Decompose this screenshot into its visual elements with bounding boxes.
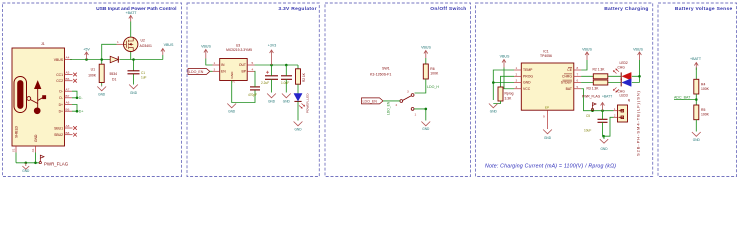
svg-text:2: 2 — [516, 72, 518, 76]
svg-text:B5: B5 — [66, 77, 70, 81]
junction gate/U1 tap — [100, 58, 103, 61]
svg-text:LDO_EN: LDO_EN — [363, 99, 378, 103]
svg-text:S1: S1 — [12, 148, 16, 152]
power symbol +3V3 — [270, 50, 274, 65]
svg-text:Battery Charging: Battery Charging — [604, 6, 648, 12]
J1 pin stub S1 — [15, 146, 17, 153]
ground below D2 — [294, 122, 303, 126]
svg-text:PWR_FLAG: PWR_FLAG — [582, 95, 601, 99]
no-connect X on CC1 — [73, 73, 77, 77]
capacitor C2 — [265, 76, 278, 80]
svg-text:GND: GND — [98, 92, 106, 96]
led LED2 red — [621, 72, 631, 80]
svg-text:3: 3 — [214, 67, 216, 71]
led LED3 blue — [621, 79, 631, 87]
svg-text:1uF: 1uF — [141, 76, 147, 80]
svg-text:POWER_LED: POWER_LED — [305, 93, 309, 113]
IC1 overbar STDBY — [563, 79, 573, 81]
wire LED rail riser — [639, 60, 641, 83]
svg-text:U2: U2 — [141, 39, 145, 43]
led D2 POWER_LED — [294, 94, 302, 102]
wire VBUS to VCC — [504, 68, 514, 89]
svg-text:J2: J2 — [627, 98, 631, 102]
wire CHRG row — [581, 75, 639, 77]
IC1 stub VCC — [514, 88, 521, 90]
svg-text:VBUS: VBUS — [421, 46, 431, 50]
svg-text:R3 1.3K: R3 1.3K — [587, 87, 600, 91]
wire VBUS to IN — [206, 59, 213, 66]
svg-text:100K: 100K — [430, 72, 439, 76]
IC1 stub CE — [574, 69, 581, 71]
wire PROG to Rprog — [501, 76, 515, 87]
wire OUT rail — [255, 64, 299, 66]
svg-text:MIC5219-3.3YM5: MIC5219-3.3YM5 — [226, 48, 252, 52]
svg-text:BP: BP — [241, 70, 246, 74]
ground left rail — [489, 104, 498, 108]
no-connect X on CC2 — [73, 79, 77, 83]
svg-text:A5: A5 — [66, 71, 70, 75]
svg-text:2: 2 — [396, 103, 398, 107]
wire R6 to switch contact — [415, 79, 426, 93]
svg-text:1: 1 — [415, 113, 417, 117]
wire CE to VBUS — [581, 60, 587, 70]
wire J2 pin2 to gnd — [603, 117, 614, 139]
svg-text:A7: A7 — [66, 87, 70, 91]
svg-text:EP: EP — [545, 106, 549, 110]
resistor Rprog — [498, 87, 503, 101]
U3 pin stub IN — [213, 64, 220, 66]
svg-text:D-: D- — [59, 96, 63, 100]
junction pwr flag — [591, 109, 594, 112]
power flag symbol — [39, 155, 44, 164]
switch SW1 — [400, 94, 414, 111]
wire C1 bottom stem — [133, 74, 135, 85]
junction ADC_BAT — [695, 98, 698, 101]
ground below C1 — [129, 85, 138, 89]
svg-text:5: 5 — [252, 61, 254, 65]
svg-text:LDO_H: LDO_H — [427, 85, 439, 89]
ground bottom J1 — [22, 163, 29, 169]
U3 pin stub OUT — [247, 64, 254, 66]
svg-text:1: 1 — [117, 40, 119, 44]
svg-text:BAT: BAT — [566, 87, 572, 91]
svg-text:470pF: 470pF — [248, 93, 257, 97]
svg-text:STDBY: STDBY — [561, 81, 573, 85]
svg-text:VBUS: VBUS — [582, 48, 592, 52]
svg-text:SW1: SW1 — [382, 66, 390, 70]
J1 pin stub A8 — [65, 127, 73, 129]
svg-text:3: 3 — [516, 79, 518, 83]
wire OUT to R2 — [297, 65, 299, 69]
wire R2 to LED — [297, 84, 299, 93]
svg-text:GND: GND — [130, 91, 138, 95]
svg-text:LDO_EN: LDO_EN — [189, 70, 204, 74]
ground below U1 — [97, 86, 106, 91]
wire lower contact to gnd — [414, 109, 426, 121]
wire C3 stems — [285, 65, 287, 93]
U2 top pin to +BATT — [130, 22, 132, 38]
svg-text:IC1: IC1 — [543, 50, 548, 54]
svg-text:SHIELD: SHIELD — [15, 125, 19, 138]
svg-text:GND: GND — [34, 134, 38, 142]
sheet frame panel 5 — [658, 3, 737, 177]
svg-text:Note: Charging Current (mA) =: Note: Charging Current (mA) = 1100(V) / … — [485, 164, 616, 170]
wire VBUS row — [70, 59, 110, 61]
svg-text:R5: R5 — [701, 108, 705, 112]
J1 pin stub B7 — [65, 97, 73, 99]
svg-text:+5V: +5V — [83, 48, 90, 52]
svg-text:10uF: 10uF — [584, 128, 591, 132]
svg-text:OUT: OUT — [239, 63, 246, 67]
svg-text:+3V3: +3V3 — [268, 43, 277, 47]
sheet frame panel 3 — [325, 3, 471, 177]
svg-text:EN: EN — [221, 70, 226, 74]
svg-text:GND: GND — [283, 100, 291, 104]
resistor R4 — [694, 79, 699, 94]
svg-text:SBU1: SBU1 — [54, 126, 63, 130]
svg-text:TP4056: TP4056 — [540, 54, 552, 58]
PANELS — [3, 3, 737, 177]
power symbol +BATT p4 — [601, 103, 605, 111]
power flag symbol p4 — [591, 103, 596, 111]
connector J2 body — [618, 105, 628, 122]
svg-text:GND: GND — [230, 71, 234, 79]
J2 stub 1 — [614, 110, 618, 112]
wire drain node up to mosfet — [130, 52, 132, 60]
global label LDO_EN p3 — [362, 98, 384, 104]
svg-text:D+: D+ — [59, 103, 63, 107]
wire shield/gnd bottom — [16, 162, 39, 164]
svg-text:LED2: LED2 — [620, 61, 628, 65]
svg-text:VBUS: VBUS — [164, 43, 174, 47]
svg-text:On/Off Switch: On/Off Switch — [430, 6, 466, 12]
svg-text:C5: C5 — [586, 114, 590, 118]
svg-text:D+: D+ — [79, 109, 84, 113]
capacitor C1 — [128, 71, 140, 74]
svg-text:USB Input and Power Path Contr: USB Input and Power Path Control — [96, 6, 177, 12]
power symbol +BATT p5 — [694, 63, 698, 71]
mosfet U2 — [124, 37, 138, 51]
svg-text:R4: R4 — [701, 82, 705, 86]
svg-text:U3: U3 — [236, 43, 240, 47]
IC1 overbar CE — [568, 67, 572, 69]
junction batt/C5 — [601, 109, 604, 112]
junction LED rail — [638, 75, 641, 78]
U3 pin stub EN — [213, 70, 220, 72]
svg-text:J1: J1 — [41, 42, 45, 46]
IC1 stub GND — [514, 82, 521, 84]
wire R5 to gnd — [695, 120, 697, 132]
svg-text:CC2: CC2 — [56, 79, 63, 83]
svg-text:CHRG: CHRG — [562, 75, 572, 79]
LED3 emission arrows — [613, 88, 619, 93]
junction C3 — [285, 64, 288, 67]
resistor R6 — [423, 64, 428, 79]
resistor R2 — [296, 69, 301, 84]
power symbol VBUS p2 — [204, 50, 208, 59]
resistor R2 p4 — [593, 74, 608, 79]
svg-text:D+: D+ — [59, 110, 63, 114]
svg-text:100K: 100K — [701, 87, 710, 91]
svg-text:Battery Voltage Sense: Battery Voltage Sense — [675, 6, 733, 12]
svg-text:R2 1K: R2 1K — [302, 72, 306, 82]
svg-text:GND: GND — [544, 136, 552, 140]
junction lower contact — [425, 108, 428, 111]
junction left rail — [492, 81, 495, 84]
J1 pin stub A6 — [65, 104, 73, 106]
wire LED to gnd — [297, 101, 299, 120]
svg-text:Rprog: Rprog — [505, 92, 514, 96]
svg-text:ADC_BAT: ADC_BAT — [674, 95, 691, 99]
ground below R5 — [692, 132, 701, 136]
svg-text:C1: C1 — [141, 71, 145, 75]
svg-text:R6: R6 — [430, 67, 434, 71]
J2 stub 2 — [614, 116, 618, 118]
wire D- pair — [72, 91, 79, 98]
J1 pin stub A7 — [65, 90, 73, 92]
USB receptacle glyph — [14, 77, 27, 113]
svg-text:5: 5 — [577, 85, 579, 89]
svg-text:8: 8 — [577, 66, 579, 70]
IC1 stub EP — [547, 110, 549, 129]
capacitor C5 — [598, 119, 608, 122]
ground below C5 — [600, 139, 608, 143]
LED2 emission arrows — [613, 69, 619, 74]
svg-text:100K: 100K — [88, 74, 97, 78]
svg-text:AO3401: AO3401 — [140, 44, 153, 48]
global label LDO_EN — [188, 69, 210, 75]
IC1 overbar CHRG — [564, 73, 572, 75]
svg-text:+BATT: +BATT — [690, 57, 702, 61]
svg-text:IN: IN — [221, 63, 225, 67]
wire C5 stems — [602, 111, 604, 137]
svg-text:R2 1.3K: R2 1.3K — [593, 68, 606, 72]
sheet frame panel 1 — [3, 3, 182, 177]
charger IC1 body — [521, 63, 574, 110]
svg-text:1: 1 — [214, 61, 216, 65]
svg-text:S2B-PH-SM4-TB(LF)(SN): S2B-PH-SM4-TB(LF)(SN) — [636, 90, 641, 156]
wire +BATT to R4 — [695, 68, 697, 80]
wire U1 bottom stem — [101, 83, 103, 86]
svg-text:6: 6 — [577, 79, 579, 83]
svg-text:B8: B8 — [66, 131, 70, 135]
svg-text:9: 9 — [543, 115, 545, 119]
junction +5V tap — [85, 58, 88, 61]
resistor R5 — [694, 105, 699, 120]
wire S1 drop — [15, 153, 17, 163]
resistor R3 — [593, 80, 608, 85]
J1 pin stub A5 — [65, 74, 73, 76]
power symbol VBUS right — [161, 49, 165, 56]
sheet frame panel 4 — [476, 3, 653, 177]
power symbol +BATT — [129, 16, 133, 22]
svg-text:CE: CE — [567, 68, 572, 72]
J1 pin stub B5 — [65, 80, 73, 82]
svg-text:GND: GND — [22, 169, 30, 173]
svg-text:7: 7 — [577, 72, 579, 76]
wire C2 stems — [271, 65, 273, 93]
svg-text:100K: 100K — [701, 113, 710, 117]
wire BP to C4 — [254, 71, 257, 87]
svg-text:+BATT: +BATT — [125, 11, 137, 15]
power symbol +5V — [85, 52, 89, 60]
svg-text:CHG: CHG — [618, 66, 626, 70]
svg-text:GND: GND — [422, 127, 430, 131]
J1 pin stub A4 — [65, 59, 73, 61]
no-connect X on SBU2 — [73, 133, 77, 137]
J1 pin stub B8 — [65, 134, 73, 136]
svg-text:GND: GND — [693, 138, 701, 142]
IC1 stub TEMP — [514, 69, 521, 71]
sheet frame panel 2 — [187, 3, 319, 177]
wire TEMP/GND left rail — [493, 70, 514, 100]
diode D1 — [110, 56, 118, 62]
wire gate riser — [102, 44, 117, 59]
wire BAT drop — [581, 89, 613, 111]
svg-text:SBU2: SBU2 — [54, 133, 63, 137]
svg-text:D-: D- — [59, 90, 63, 94]
capacitor C4 470pF — [250, 87, 260, 90]
resistor U1 — [99, 64, 104, 82]
svg-text:1: 1 — [614, 107, 616, 111]
svg-text:3.3V Regulator: 3.3V Regulator — [278, 6, 316, 12]
IC1 stub PROG — [514, 75, 521, 77]
connector J1 body — [12, 48, 65, 146]
wire vbus arrow riser — [162, 55, 164, 60]
svg-text:A1: A1 — [31, 148, 35, 152]
svg-text:GND: GND — [600, 147, 608, 151]
wire diode to drain node — [120, 59, 163, 61]
svg-text:VBUS: VBUS — [633, 48, 643, 52]
wire R4 to R5 — [695, 94, 697, 105]
wire ADC_BAT tap — [674, 99, 696, 101]
wire U3 gnd drop — [232, 81, 255, 103]
U2 gate pin stub — [117, 43, 124, 45]
J1 pin stub B6 — [65, 110, 73, 112]
svg-text:2: 2 — [614, 113, 616, 117]
ground below switch — [421, 122, 430, 126]
IC1 stub CHRG — [574, 75, 581, 77]
svg-text:5534: 5534 — [110, 72, 118, 76]
wire Rprog to gnd — [493, 101, 500, 104]
svg-text:K3-1260S-F1: K3-1260S-F1 — [370, 72, 391, 76]
svg-text:4: 4 — [252, 67, 254, 71]
svg-text:A4: A4 — [66, 56, 70, 60]
svg-text:PROG: PROG — [523, 75, 533, 79]
wire VBUS to R6 — [425, 58, 427, 64]
svg-text:LDO_EN: LDO_EN — [387, 101, 391, 115]
ground below C2 — [267, 94, 276, 98]
wire LDO_EN to EN — [210, 70, 213, 72]
D2 emission arrows — [299, 104, 305, 109]
svg-text:3.3K: 3.3K — [505, 97, 513, 101]
svg-text:U1: U1 — [91, 68, 95, 72]
wire U1 top stem — [101, 60, 103, 65]
wire A1 drop — [35, 153, 37, 163]
power symbol VBUS p4 mid — [585, 52, 589, 60]
wire C1 top stem — [133, 60, 135, 71]
svg-text:GND: GND — [294, 128, 302, 132]
ground below U3 — [227, 104, 236, 108]
U3 pin stub BP — [247, 70, 254, 72]
svg-text:GND: GND — [490, 110, 498, 114]
svg-text:A8: A8 — [66, 124, 70, 128]
junction drain/C1 — [132, 58, 135, 61]
regulator U3 body — [220, 59, 248, 81]
junction +3V3/C2 — [270, 64, 273, 67]
ground below EP — [543, 130, 552, 134]
svg-text:VBUS: VBUS — [54, 58, 64, 62]
wire LDO_EN to common — [383, 100, 400, 102]
svg-text:CC1: CC1 — [56, 73, 63, 77]
svg-text:TEMP: TEMP — [523, 68, 533, 72]
svg-text:VBUS: VBUS — [500, 55, 510, 59]
ground below C3 — [282, 94, 291, 98]
J1 pin stub A1 — [35, 146, 37, 153]
junction D+ — [76, 110, 79, 113]
svg-text:B6: B6 — [66, 107, 70, 111]
power symbol VBUS p4 right — [638, 52, 642, 60]
junction D- — [76, 97, 79, 100]
power symbol VBUS p4 left — [502, 60, 506, 68]
capacitor C3 — [281, 76, 292, 80]
wire D+ pair — [72, 105, 79, 112]
svg-text:VBUS: VBUS — [201, 45, 211, 49]
svg-text:GND: GND — [228, 110, 236, 114]
IC1 stub STDBY — [574, 82, 581, 84]
svg-text:1.0uF: 1.0uF — [281, 81, 289, 85]
J2 pin graphics — [619, 109, 624, 118]
svg-text:GND: GND — [268, 100, 276, 104]
svg-text:3: 3 — [407, 90, 409, 94]
svg-text:+BATT: +BATT — [602, 95, 612, 99]
svg-text:B7: B7 — [66, 94, 70, 98]
junction bottom gnd — [25, 162, 28, 165]
svg-text:A6: A6 — [66, 101, 70, 105]
IC1 stub BAT — [574, 88, 581, 90]
svg-text:VCC: VCC — [523, 87, 531, 91]
power symbol VBUS p3 — [424, 51, 428, 59]
wire STDBY row — [581, 82, 639, 84]
USB trident glyph — [27, 81, 46, 113]
svg-text:D1: D1 — [112, 78, 116, 82]
C2 plus mark — [266, 71, 269, 74]
svg-text:1: 1 — [516, 66, 518, 70]
svg-text:2.2uF: 2.2uF — [261, 81, 269, 85]
svg-text:4: 4 — [516, 85, 518, 89]
no-connect X on SBU1 — [73, 126, 77, 130]
svg-text:PWR_FLAG: PWR_FLAG — [44, 161, 69, 166]
svg-text:GND: GND — [523, 81, 531, 85]
svg-text:LED3: LED3 — [620, 94, 628, 98]
